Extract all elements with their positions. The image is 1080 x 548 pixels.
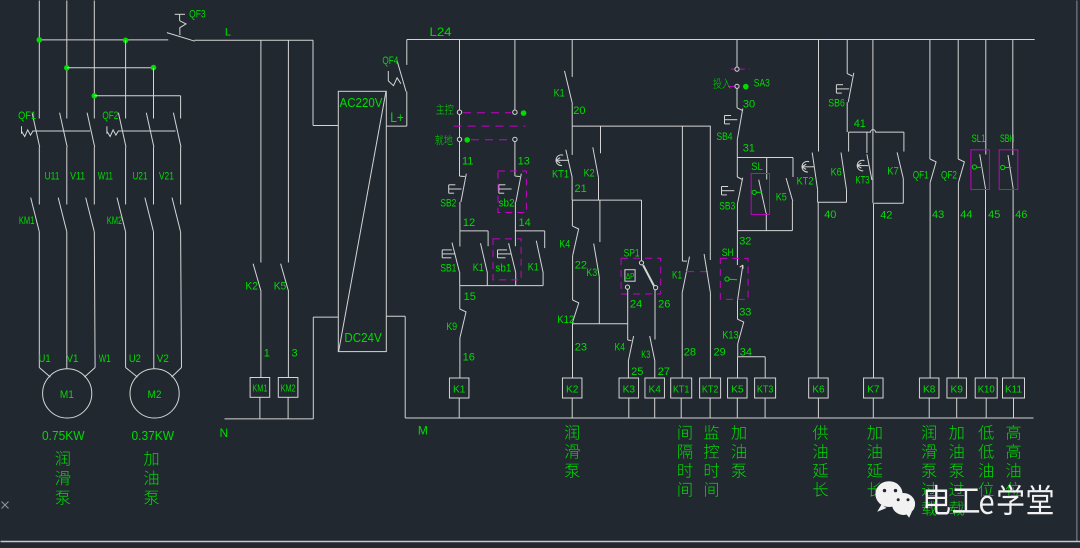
contactor coil KM2 [278,378,298,398]
green circle SL [752,190,756,194]
contact K1 self-hold b [536,231,544,286]
svg-text:SBH: SBH [1000,133,1015,145]
mechanical link dashes [686,271,708,273]
bus M [405,417,1033,419]
svg-text:K2: K2 [245,281,258,293]
node 31 wire [736,140,738,158]
dashed box SH [720,258,748,299]
svg-text:SB2: SB2 [440,198,456,210]
wires QF2 to KM2 [125,147,127,204]
contact K1 self-hold a [481,231,489,286]
relay coil K4 [645,378,665,398]
svg-text:SB3: SB3 [719,201,735,213]
relay coil K11 [1003,378,1025,398]
contact QF2 aux (NC) [958,40,964,379]
wire bus to SA3 [736,40,738,67]
svg-text:K9: K9 [951,383,964,395]
contact K2 for KM1 coil [260,40,262,262]
svg-text:SB6: SB6 [828,97,845,109]
wire 13 column from bus [514,40,516,113]
wire SB6 to node 41 [846,102,848,132]
right frame line [1076,1,1078,542]
svg-text:QF2: QF2 [941,169,957,181]
svg-text:K5: K5 [274,281,287,293]
svg-text:U2: U2 [129,353,141,365]
dashed box SP1 [621,258,661,294]
svg-text:U11: U11 [45,171,60,183]
svg-text:K13: K13 [722,330,739,342]
contact K12 (NC) [573,300,579,324]
contact K5 for KM2 coil [287,40,289,262]
contactor contacts KM1 [31,198,95,232]
svg-text:W1: W1 [99,353,111,365]
contact K1 for KT1 [682,126,689,378]
svg-text:11: 11 [462,156,473,168]
contact K2 self-hold [593,126,601,200]
pushbutton sb2 (NC, remote) [499,174,522,202]
svg-text:K3: K3 [623,383,636,395]
svg-text:KT1: KT1 [552,169,569,181]
contact K5 self-hold [786,158,793,231]
dot selector row1 [521,110,527,116]
wire to coil K2 [572,324,574,378]
svg-text:KT2: KT2 [702,383,719,395]
wire to K6 coil [817,202,819,378]
pushbutton SB2 (NC) [449,174,467,202]
linked contact for KT2 [704,126,710,378]
wire 26 to coil K4 [654,290,656,340]
node 41 wire with hop [849,130,904,133]
svg-text:K1: K1 [528,261,539,273]
svg-text:K5: K5 [776,192,787,204]
box SBH [999,150,1018,190]
contact K3 parallel [594,200,600,324]
svg-text:K11: K11 [1005,383,1022,395]
svg-text:SP1: SP1 [624,248,640,260]
svg-text:28: 28 [684,347,696,359]
node 32 wire [736,204,738,231]
svg-text:KT3: KT3 [856,175,870,187]
caption high-high oil level (K11) [1006,425,1020,440]
pushbutton SB4 (NC) [725,89,743,140]
svg-text:sb1: sb1 [495,263,511,275]
node 12 wire [460,230,488,232]
contact K9 (NC) [460,286,466,378]
tap wire to QF2 pole2 [67,67,154,69]
svg-text:30: 30 [743,99,755,111]
svg-text:U21: U21 [133,171,148,183]
box SL1 [971,150,990,190]
svg-text:V11: V11 [70,171,85,183]
green circle SBH [1001,165,1005,169]
svg-text:K1: K1 [554,88,565,100]
relay coil K9 [947,378,967,398]
contact K4 interlock (NC) [628,336,634,378]
svg-text:K7: K7 [867,383,880,395]
svg-text:33: 33 [739,307,751,319]
svg-text:V2: V2 [157,353,169,365]
contactor coil KM1 [250,378,270,398]
label engage (tou ru) [713,78,721,89]
stray cross mark [2,502,9,509]
wire DC24V M output [387,315,406,317]
svg-text:QF1: QF1 [913,169,929,181]
svg-text:SA3: SA3 [754,78,770,90]
svg-text:KM2: KM2 [107,215,123,227]
phase line L2 [66,1,68,119]
svg-text:SB1: SB1 [440,263,456,275]
svg-text:W11: W11 [98,171,113,183]
wire 14 [514,202,516,231]
node 34 wire [738,356,766,358]
svg-text:SB4: SB4 [717,131,733,143]
svg-text:KT2: KT2 [797,176,814,188]
svg-text:40: 40 [824,209,836,221]
svg-text:K4: K4 [559,239,570,251]
selector switch master/local [454,110,526,142]
svg-text:K10: K10 [978,383,995,395]
caption oil pump (K5) [731,425,745,440]
node 40 wire [818,201,847,203]
wires KM2 to motor M2 [125,232,127,368]
node 42 wire [874,202,903,204]
caption interval time (KT1) [679,425,692,440]
svg-text:29: 29 [714,347,726,359]
node 23 wire [573,323,628,325]
dashed box sb2 [498,171,526,213]
watermark text dian gong e xue tang [926,484,1053,515]
junction dot L3 [92,93,98,99]
tap wire to QF2 pole1 [123,38,129,44]
svg-text:21: 21 [575,183,587,195]
contactor contacts KM2 [117,198,181,232]
pushbutton sb1 (NO, remote) [498,231,516,286]
wires QF1 to KM1 [38,147,40,204]
svg-text:24: 24 [630,299,642,311]
svg-text:16: 16 [463,352,475,364]
box SL [751,174,769,215]
contact K13 (NC) [738,301,744,357]
breaker QF2 [107,113,181,147]
relay coil K7 [864,378,884,398]
svg-text:K4: K4 [615,342,626,354]
svg-text:KM2: KM2 [281,383,296,395]
svg-text:K1: K1 [453,383,466,395]
level switch SL1 [980,40,986,379]
wire to K7 coil [873,203,875,378]
wires KM1 to motor M1 [38,232,40,368]
caption oil pump overload (K9) [949,425,963,440]
svg-text:SL1: SL1 [972,133,986,145]
contact KT2 (delay) for K6 [802,40,819,203]
node 20 wire [571,104,573,126]
contact KT1 (delay) [556,126,572,200]
bottom frame line [1,541,1080,543]
green circle SH [725,277,729,281]
motor M1 [43,369,92,418]
caption low-low oil level (K10) [978,425,993,440]
svg-text:K5: K5 [731,383,744,395]
svg-text:KT1: KT1 [673,383,690,395]
svg-text:AC220V: AC220V [340,95,383,110]
svg-text:20: 20 [573,105,585,117]
caption supply oil extend (K6) [813,425,828,440]
svg-text:U1: U1 [39,353,51,365]
wire to K5 coil [737,357,739,378]
svg-text:K6: K6 [831,167,842,179]
svg-text:K1: K1 [473,262,484,274]
timer coil KT2 [700,378,721,398]
dot SA3 [743,84,749,90]
wire L to transformer primary [312,40,314,125]
node 15 wire [460,285,543,287]
svg-text:M1: M1 [60,389,74,401]
svg-text:K2: K2 [584,168,595,180]
svg-text:K2: K2 [566,383,579,395]
svg-text:1: 1 [264,348,270,360]
node 21 wire [572,199,641,201]
svg-text:0.75KW: 0.75KW [42,429,85,443]
wire 11 column from bus [459,40,461,177]
svg-text:M2: M2 [148,389,162,401]
contact K4 (NC) [572,200,578,300]
contact K3 interlock (NO) [650,336,655,378]
label oil pump (M2) [144,451,158,466]
power supply module AC220V/DC24V [338,91,386,351]
label local control [435,135,443,146]
pressure switch SP1 [625,261,658,290]
timer coil KT3 [755,378,776,398]
wechat logo bubbles [875,481,915,518]
bus L24 [407,39,1035,41]
wire 24 to coil K3 [627,289,629,340]
green circle SL1 [972,165,976,169]
motor M2 [130,369,179,418]
relay coil K10 [975,378,997,398]
caption refill extend (K7) [867,425,881,440]
svg-text:23: 23 [575,342,587,354]
contact K1 (NO) top [565,40,573,104]
svg-text:45: 45 [988,209,1000,221]
svg-text:15: 15 [464,291,476,303]
pushbutton SB1 (NO) [442,231,460,286]
bus L to QF3 [39,39,168,41]
svg-text:22: 22 [575,260,587,272]
svg-text:27: 27 [658,366,670,378]
svg-text:L+: L+ [390,110,404,125]
wire to KT3 coil [764,357,766,378]
svg-text:V1: V1 [67,353,79,365]
svg-text:QF4: QF4 [382,55,398,67]
breaker QF3 [167,14,195,41]
label master control [436,104,444,114]
caption lube pump overload (K8) [922,425,936,440]
svg-text:26: 26 [658,299,670,311]
svg-text:41: 41 [854,118,866,130]
contact QF1 aux (NC) [930,40,936,379]
bus N [225,418,314,420]
svg-text:3: 3 [292,348,298,360]
svg-text:12: 12 [463,217,475,229]
svg-text:M: M [418,424,428,438]
pushbutton SB6 (NC) [836,40,853,103]
relay coil K6 [809,378,829,398]
svg-text:42: 42 [880,210,892,222]
svg-text:KM1: KM1 [252,383,267,395]
svg-text:44: 44 [960,209,972,221]
wire N to transformer [312,317,314,419]
svg-text:N: N [220,426,229,440]
svg-text:K4: K4 [649,383,662,395]
svg-text:DC24V: DC24V [344,330,382,345]
relay coil K2 [562,378,582,398]
level switch SBH [1008,40,1013,379]
svg-text:31: 31 [743,143,755,155]
svg-text:K7: K7 [887,166,899,178]
svg-text:QF1: QF1 [18,110,36,122]
svg-text:SH: SH [722,247,734,259]
svg-text:QF3: QF3 [189,9,206,21]
contact KT3 (delay) for K7 [857,132,872,180]
pushbutton SB3 (NC) [722,158,743,205]
breaker QF1 [22,113,95,147]
wire bus through hop to node 42 [872,40,874,204]
svg-text:13: 13 [518,156,530,168]
wire node21 to SP1 [641,200,643,261]
svg-text:0.37KW: 0.37KW [132,429,175,443]
caption monitor time (KT2) [704,425,719,439]
svg-text:K9: K9 [446,321,457,333]
svg-text:43: 43 [932,209,944,221]
svg-text:46: 46 [1015,209,1027,221]
svg-text:14: 14 [519,217,531,229]
relay coil K1 [449,378,469,398]
svg-text:K3: K3 [641,349,650,361]
svg-text:K6: K6 [812,383,825,395]
junction dot L2 [64,65,70,71]
svg-text:K1: K1 [672,269,682,281]
tap wire to QF2 pole3 [94,95,180,97]
caption lubrication pump (K2) [565,425,579,440]
phase line L1 [38,1,40,119]
svg-text:L24: L24 [430,27,453,39]
svg-text:KT3: KT3 [757,383,774,395]
svg-text:K3: K3 [586,267,597,279]
dot selector row2 [464,137,470,143]
svg-text:KM1: KM1 [19,215,35,227]
svg-text:QF2: QF2 [102,110,118,122]
terminal box L+ [406,92,408,127]
pressure switch SH [737,231,743,301]
breaker QF4 [388,40,407,92]
svg-text:ΔP: ΔP [626,271,635,281]
svg-text:25: 25 [631,366,643,378]
svg-text:V21: V21 [159,171,174,183]
selector SA3 [728,67,750,88]
label lubrication pump (M1) [55,451,69,466]
junction dot L1 [37,37,43,43]
svg-text:K8: K8 [923,383,936,395]
dashed box sb1 [493,239,521,280]
timer coil KT1 [671,378,692,398]
contact K7 self-hold [897,132,904,203]
relay coil K3 [619,378,639,398]
contact K6 self-hold [841,132,849,202]
phase line L3 [93,1,95,119]
bus L after QF3 [194,39,313,41]
svg-text:32: 32 [739,236,751,248]
level switch SL branch [759,158,767,231]
relay coil K5 [728,378,748,398]
relay coil K8 [919,378,939,398]
node 14 wire [515,230,545,232]
svg-text:L: L [225,27,231,39]
svg-text:sb2: sb2 [499,198,515,210]
wire 12 [459,202,461,231]
svg-text:SL: SL [751,161,763,173]
svg-text:K12: K12 [557,314,574,326]
